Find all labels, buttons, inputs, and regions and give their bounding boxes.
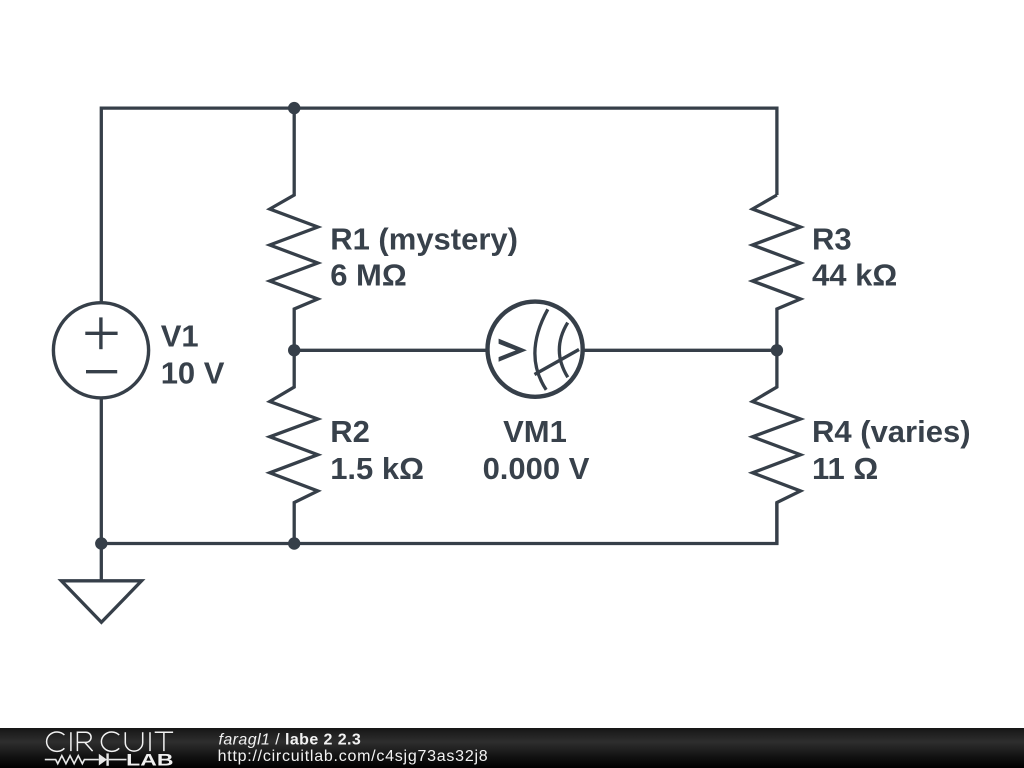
ground — [61, 581, 141, 623]
svg-text:R1 (mystery): R1 (mystery) — [330, 221, 518, 256]
junction node bottom middle — [288, 537, 300, 549]
resistor R1 — [270, 108, 318, 350]
junction node top — [288, 102, 300, 114]
resistor R3 — [753, 195, 801, 350]
wire middle left (node to voltmeter) — [294, 349, 487, 352]
footer bar — [0, 728, 1024, 768]
junction node ground — [95, 537, 107, 549]
svg-text:6 MΩ: 6 MΩ — [330, 258, 407, 293]
wire top rail — [101, 108, 777, 302]
wire ground stem — [100, 544, 103, 581]
wire bottom rail — [101, 399, 777, 543]
svg-text:V1: V1 — [161, 318, 199, 353]
resistor R4 — [753, 350, 801, 543]
svg-text:VM1: VM1 — [503, 414, 567, 449]
svg-text:1.5 kΩ: 1.5 kΩ — [330, 451, 424, 486]
wire middle right (voltmeter to node) — [583, 349, 777, 352]
junction node right middle — [771, 344, 783, 356]
svg-text:http://circuitlab.com/c4sjg73a: http://circuitlab.com/c4sjg73as32j8 — [218, 748, 489, 765]
svg-text:LAB: LAB — [126, 751, 173, 768]
CircuitLab logo resistor squiggle and diode — [45, 753, 127, 765]
voltmeter VM1 — [487, 302, 582, 397]
svg-text:10 V: 10 V — [161, 355, 225, 390]
resistor R2 — [270, 350, 318, 543]
CircuitLab logo word CIRCUIT — [47, 732, 173, 751]
svg-text:R4 (varies): R4 (varies) — [812, 414, 971, 449]
svg-text:11 Ω: 11 Ω — [812, 451, 878, 486]
junction node left middle — [288, 344, 300, 356]
svg-text:0.000 V: 0.000 V — [483, 451, 590, 486]
svg-text:faragl1 / labe 2 2.3: faragl1 / labe 2 2.3 — [219, 731, 362, 748]
voltage source V1 — [53, 303, 148, 398]
svg-text:R3: R3 — [812, 221, 852, 256]
svg-text:R2: R2 — [330, 414, 370, 449]
svg-text:44 kΩ: 44 kΩ — [812, 258, 897, 293]
